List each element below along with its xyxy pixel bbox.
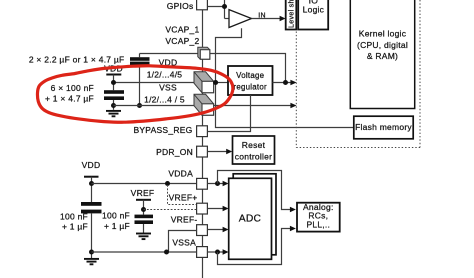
block ADC back card — [233, 174, 276, 255]
wire VDDA — [92, 183, 197, 185]
block reset controller — [233, 136, 275, 164]
pin VCAP 3D box — [198, 47, 210, 59]
arrowhead regulator output into core — [290, 80, 296, 86]
node VREF tap dot — [141, 207, 146, 212]
svg-text:1/2/...4/5: 1/2/...4/5 — [147, 69, 183, 79]
capacitor 100nF+1uF VREF — [135, 215, 154, 219]
svg-text:ADC: ADC — [239, 213, 262, 224]
svg-text:Flash memory: Flash memory — [355, 122, 412, 132]
dashed core domain boundary — [296, 0, 420, 148]
wire VREF- to ADC — [207, 229, 224, 231]
svg-text:Kernel logic: Kernel logic — [359, 29, 407, 39]
capacitor 100nF+1uF analog — [81, 202, 102, 206]
chip edge line — [202, 0, 204, 278]
svg-text:VDD: VDD — [82, 160, 101, 170]
node VCAP cap ground dot — [137, 103, 142, 108]
wire regulator output — [273, 82, 292, 84]
svg-text:VREF+: VREF+ — [169, 192, 198, 202]
svg-text:(CPU, digital: (CPU, digital — [357, 40, 408, 50]
pin BYPASS_REG box — [197, 126, 208, 137]
block kernel logic — [350, 0, 414, 109]
block analog RCs PLL — [297, 203, 340, 232]
annotation red ellipse — [37, 66, 232, 122]
block level shifter — [286, 0, 297, 30]
arrowhead VSS into core — [290, 103, 296, 109]
node VDD tap dot — [111, 80, 116, 85]
block voltage regulator — [228, 66, 273, 95]
block ADC front card — [229, 178, 272, 259]
svg-text:Reset: Reset — [242, 140, 266, 150]
node VDDA tap dot — [89, 181, 94, 186]
wire VCAP cap to pin — [140, 53, 198, 55]
svg-text:& RAM): & RAM) — [367, 51, 398, 61]
arrowhead VSSA into ADC — [223, 249, 229, 255]
node VDDA branch dot — [215, 181, 220, 186]
wire GPIOs to junction — [207, 6, 224, 8]
block flash memory — [354, 116, 413, 139]
svg-text:Logic: Logic — [303, 5, 325, 15]
svg-text:PDR_ON: PDR_ON — [156, 147, 193, 157]
arrowhead VREF- into ADC — [223, 227, 229, 233]
arrowhead VDDA into ADC — [223, 181, 229, 187]
pin VDD 3D box — [194, 72, 214, 93]
svg-text:Voltage: Voltage — [236, 71, 264, 80]
wire BYPASS_REG to regulator — [207, 95, 250, 132]
wire VSSA under ADC to analog block — [218, 229, 292, 265]
svg-text:1/2/...4 / 5: 1/2/...4 / 5 — [144, 94, 185, 104]
wire VCAP pin to regulator output node — [210, 54, 286, 83]
arrowhead VREF+ into ADC — [223, 206, 229, 212]
wire VDDA over ADC to analog block — [218, 171, 292, 210]
wire VSS pin to core — [214, 105, 292, 107]
svg-text:VREF: VREF — [131, 188, 155, 198]
svg-text:IN: IN — [258, 12, 266, 19]
node VDD internal dot — [213, 80, 218, 85]
pin VSSA box — [197, 247, 208, 258]
arrowhead into level shifter — [280, 16, 286, 22]
node VSSA tap dot — [89, 250, 94, 255]
svg-text:Level shifter: Level shifter — [287, 0, 296, 28]
wire VSSA — [92, 251, 197, 253]
power VDD symbol lower — [84, 176, 99, 178]
pin VSS 3D box — [194, 94, 214, 115]
pin PDR_ON box — [197, 146, 208, 157]
wire VREF+ to ADC — [207, 208, 224, 210]
VDD supply rail to buffer — [216, 28, 355, 127]
wire VDD rail — [114, 82, 195, 84]
ground analog left — [84, 259, 99, 264]
arrowhead VSSA into analog block — [290, 226, 296, 232]
svg-text:GPIOs: GPIOs — [167, 1, 194, 11]
svg-text:regulator: regulator — [233, 82, 267, 91]
pin VREF+ box — [197, 203, 208, 214]
svg-text:PLL,..: PLL,.. — [306, 219, 330, 229]
node VREF- join dot — [164, 250, 169, 255]
ground VREF — [136, 234, 151, 240]
node VREF+ link dot — [165, 181, 170, 186]
wire buffer output to level shifter — [252, 18, 282, 20]
svg-text:VSS: VSS — [159, 82, 177, 92]
pin VREF- box — [197, 225, 208, 236]
svg-text:VDDA: VDDA — [168, 169, 193, 179]
svg-text:VCAP_1: VCAP_1 — [165, 25, 199, 35]
wire VSSA to ADC — [207, 251, 224, 253]
node GPIO junction dot — [222, 4, 227, 9]
pin VDDA box — [197, 178, 208, 189]
wire to buffer input — [225, 18, 230, 20]
svg-text:VCAP_2: VCAP_2 — [165, 36, 199, 46]
svg-text:VSSA: VSSA — [172, 238, 196, 248]
svg-text:+ 1 × 4.7 µF: + 1 × 4.7 µF — [45, 94, 94, 104]
wire VREF to VREF+ dashed — [144, 209, 197, 211]
svg-text:controller: controller — [235, 151, 272, 161]
block IO logic — [298, 0, 328, 30]
svg-text:BYPASS_REG: BYPASS_REG — [133, 125, 192, 135]
arrowhead into reset controller — [226, 149, 232, 155]
wire VREF- to VSSA — [169, 231, 197, 253]
capacitor 6x100nF+1x4.7uF — [104, 90, 124, 94]
svg-text:100 nF: 100 nF — [102, 211, 130, 221]
wire VDDA to VREF+ dashed — [168, 185, 197, 205]
node VSS tap dot — [111, 103, 116, 108]
wire VDD pin to regulator — [214, 82, 228, 84]
svg-text:100 nF: 100 nF — [60, 211, 88, 221]
ground under main cap — [106, 111, 121, 116]
power VREF symbol — [136, 199, 151, 201]
arrowhead VDDA into analog block — [290, 207, 296, 213]
svg-text:+ 1 µF: + 1 µF — [62, 222, 88, 232]
wire VDDA to ADC — [207, 183, 224, 185]
svg-text:VREF-: VREF- — [171, 214, 198, 224]
wire VSS line — [114, 105, 195, 107]
wire junction up — [224, 0, 226, 19]
svg-text:+ 1 µF: + 1 µF — [104, 221, 130, 231]
capacitor 2x2.2uF VCAP — [139, 54, 141, 58]
node regulator output dot — [283, 80, 288, 85]
op-amp IO buffer triangle — [229, 10, 252, 28]
pin GPIOs box — [197, 0, 208, 10]
wire PDR_ON to reset controller — [207, 151, 228, 153]
svg-text:6 × 100 nF: 6 × 100 nF — [51, 83, 94, 93]
node VSSA branch dot — [215, 250, 220, 255]
